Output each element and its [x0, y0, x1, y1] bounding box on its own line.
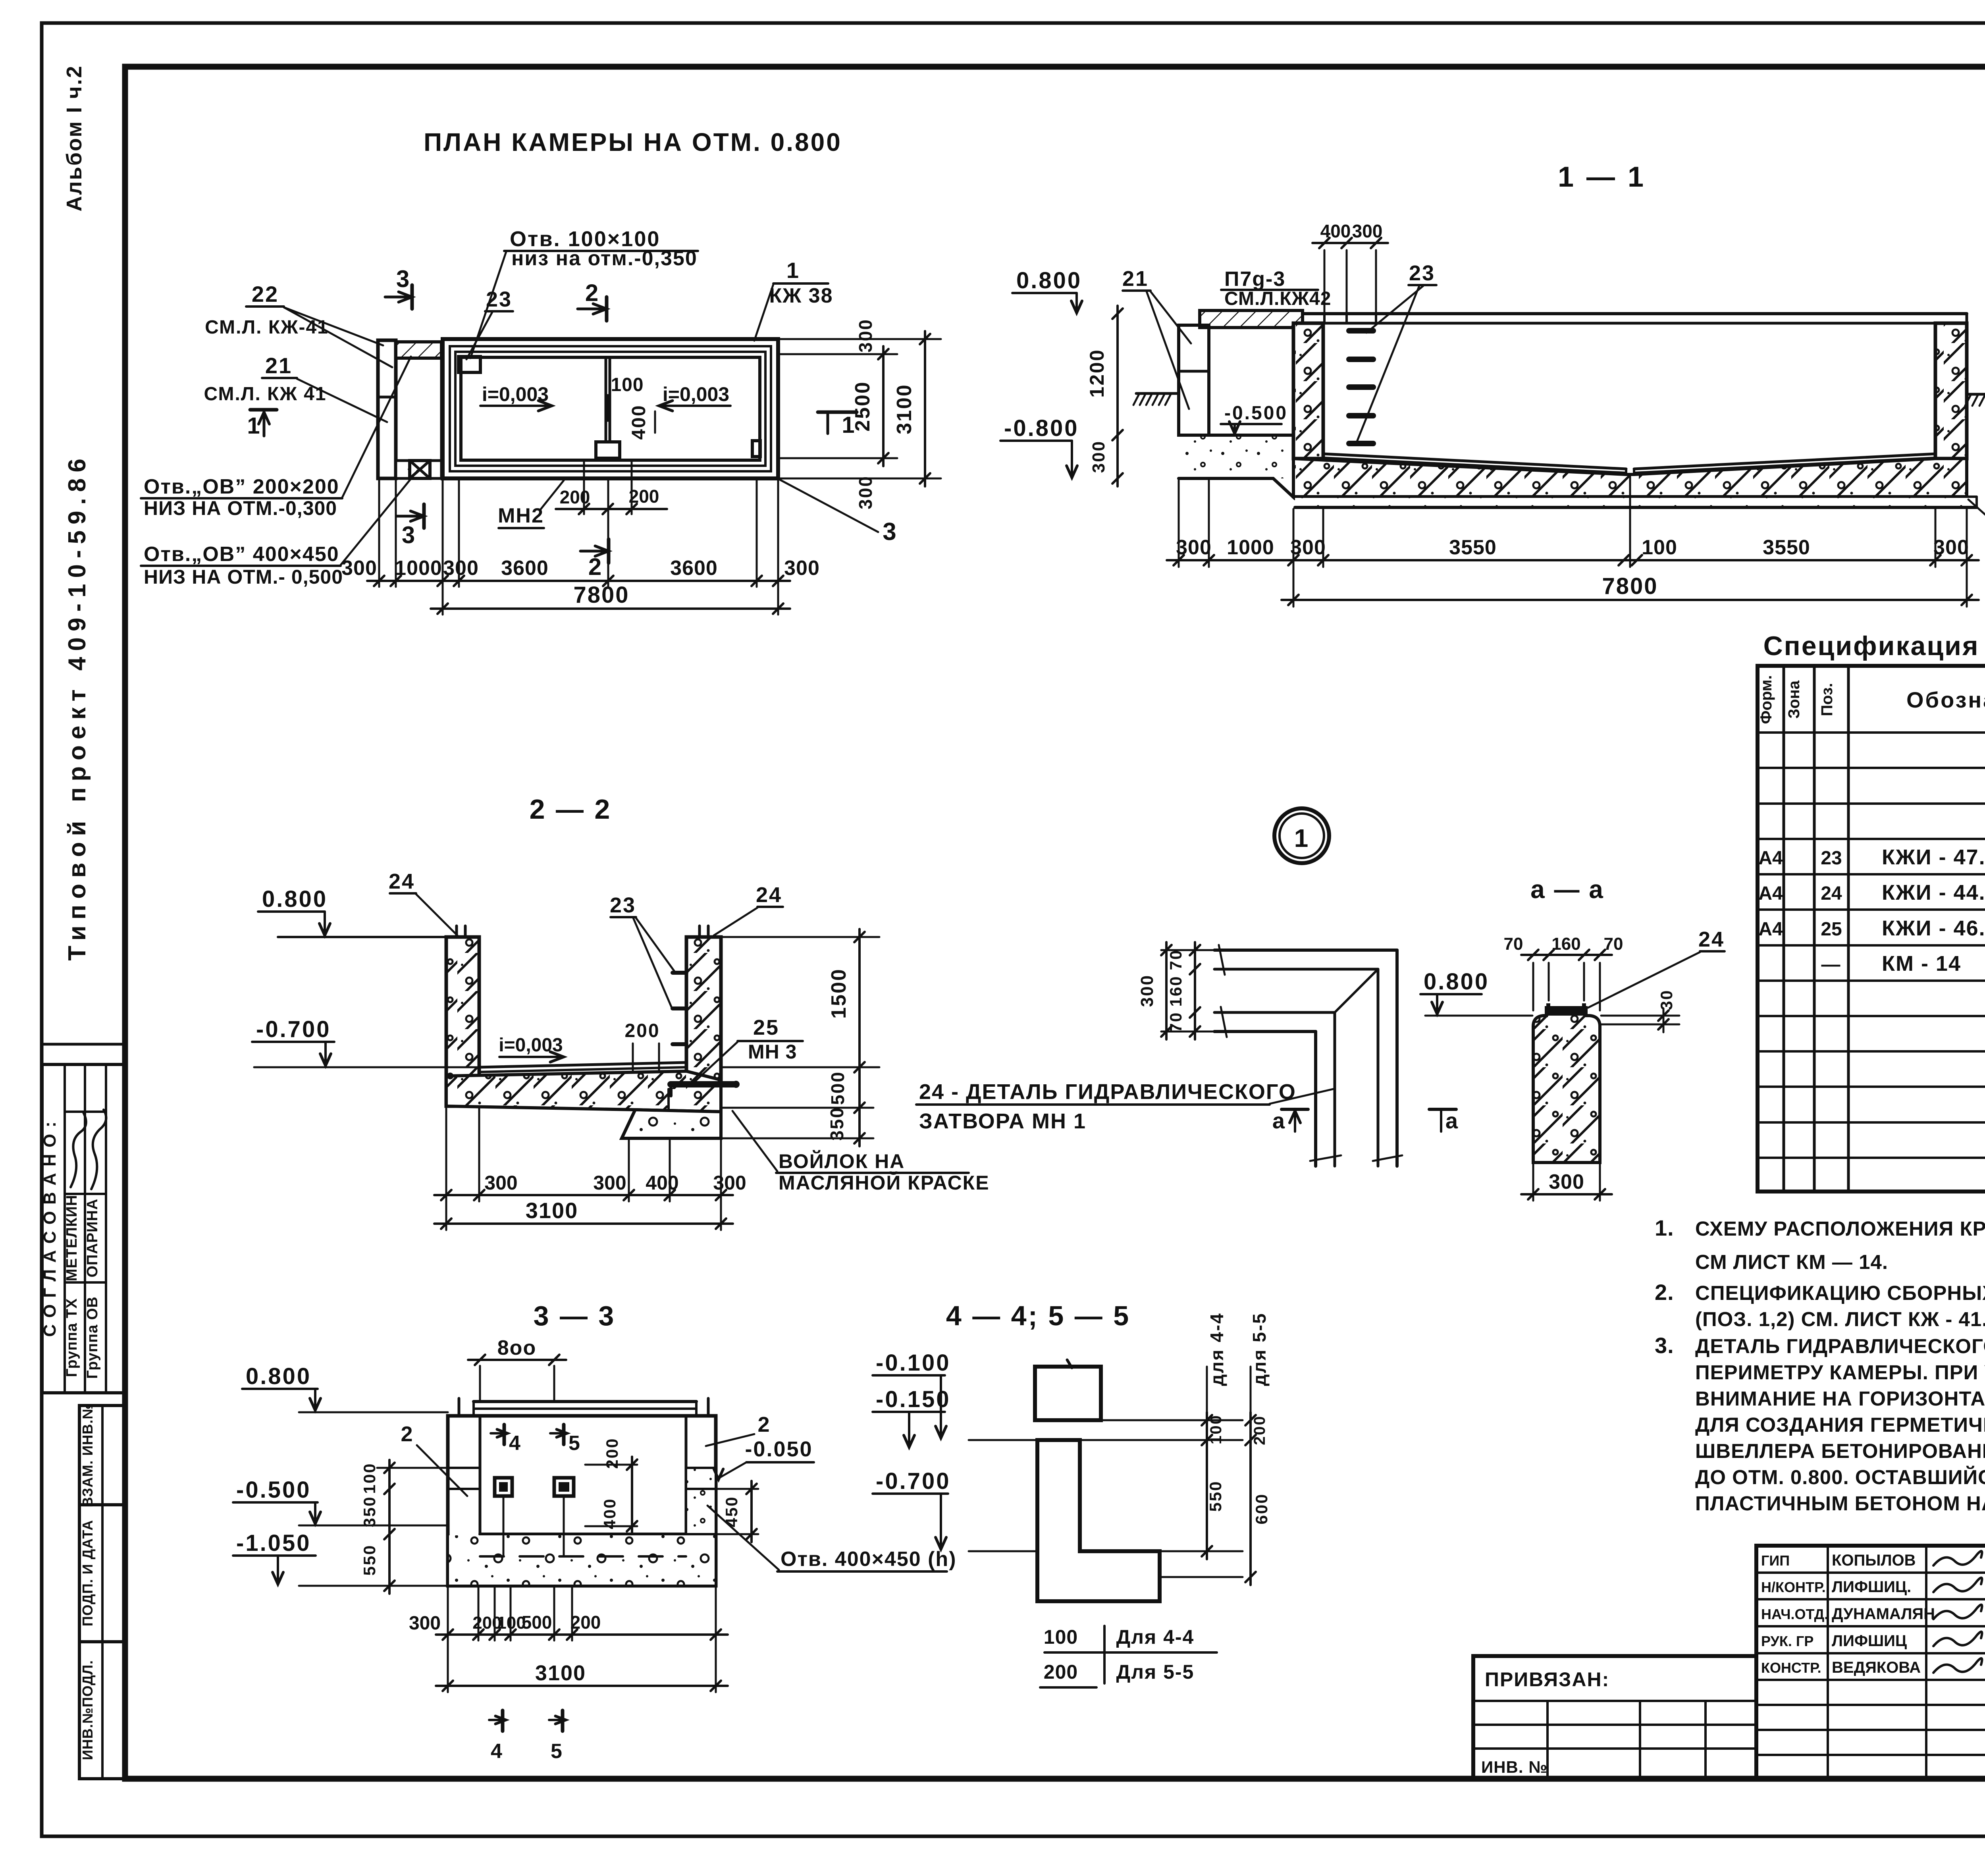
- svg-text:-0.800: -0.800: [1004, 415, 1079, 441]
- svg-text:3600: 3600: [670, 557, 718, 580]
- svg-text:Отв.„ОВ” 400×450: Отв.„ОВ” 400×450: [144, 543, 339, 566]
- svg-text:1.: 1.: [1655, 1215, 1674, 1240]
- svg-text:1 — 1: 1 — 1: [1558, 161, 1646, 193]
- svg-text:-0.500: -0.500: [1224, 403, 1288, 424]
- svg-text:КЖ 38: КЖ 38: [769, 284, 833, 307]
- svg-text:a — a: a — a: [1530, 875, 1604, 904]
- svg-text:Поз.: Поз.: [1818, 683, 1836, 716]
- svg-text:24: 24: [1698, 927, 1725, 951]
- svg-text:24 - ДЕТАЛЬ ГИДРАВЛИЧЕСКОГО: 24 - ДЕТАЛЬ ГИДРАВЛИЧЕСКОГО: [919, 1080, 1296, 1104]
- svg-text:21: 21: [265, 353, 292, 378]
- svg-text:3100: 3100: [526, 1198, 578, 1223]
- svg-text:-1.050: -1.050: [236, 1530, 311, 1556]
- svg-text:550: 550: [1206, 1480, 1225, 1512]
- svg-text:СПЕЦИФИКАЦИЮ СБОРНЫХ БЕТОННЫ: СПЕЦИФИКАЦИЮ СБОРНЫХ БЕТОННЫХ И ЖЕЛЕЗОБЕ…: [1695, 1282, 1985, 1304]
- svg-text:-0.500: -0.500: [236, 1477, 311, 1503]
- svg-text:ДЛЯ СОЗДАНИЯ ГЕРМЕТИЧНОСТИ: ДЛЯ СОЗДАНИЯ ГЕРМЕТИЧНОСТИ МЕЖДУ БЕТОНОМ…: [1695, 1413, 1985, 1436]
- svg-text:МН 3: МН 3: [748, 1041, 797, 1063]
- svg-text:200: 200: [603, 1437, 621, 1469]
- svg-text:ЛИФШИЦ: ЛИФШИЦ: [1832, 1632, 1907, 1650]
- svg-text:4: 4: [491, 1740, 503, 1763]
- svg-text:70: 70: [1504, 934, 1523, 954]
- svg-text:2: 2: [757, 1413, 771, 1436]
- svg-text:ПЛАН КАМЕРЫ НА ОТМ. 0.800: ПЛАН КАМЕРЫ НА ОТМ. 0.800: [424, 128, 842, 156]
- svg-text:3550: 3550: [1449, 536, 1497, 559]
- svg-text:-0.100: -0.100: [876, 1350, 950, 1376]
- svg-text:70: 70: [1604, 934, 1623, 954]
- svg-text:1: 1: [786, 258, 800, 283]
- svg-text:2 — 2: 2 — 2: [530, 794, 612, 825]
- svg-text:350: 350: [360, 1496, 379, 1527]
- svg-text:500: 500: [522, 1612, 552, 1633]
- svg-text:ШВЕЛЛЕРА БЕТОНИРОВАНИЕ СТЕН: ШВЕЛЛЕРА БЕТОНИРОВАНИЕ СТЕН КАМЕРЫ НЕ ДО…: [1695, 1440, 1985, 1462]
- svg-text:Для 4-4: Для 4-4: [1116, 1626, 1195, 1648]
- svg-text:100: 100: [1207, 1414, 1225, 1444]
- svg-text:-0.150: -0.150: [876, 1386, 950, 1412]
- svg-text:-0.050: -0.050: [745, 1437, 813, 1461]
- svg-text:СМ.Л.КЖ42: СМ.Л.КЖ42: [1224, 288, 1331, 309]
- svg-text:СМ.Л. КЖ-41: СМ.Л. КЖ-41: [205, 317, 329, 338]
- svg-text:НИЗ НА ОТМ.-0,300: НИЗ НА ОТМ.-0,300: [144, 497, 337, 519]
- svg-text:1200: 1200: [1086, 349, 1108, 397]
- svg-text:СМ ЛИСТ КМ — 14.: СМ ЛИСТ КМ — 14.: [1695, 1251, 1888, 1273]
- svg-text:23: 23: [1821, 848, 1842, 869]
- svg-text:3100: 3100: [893, 384, 916, 434]
- svg-text:7800: 7800: [1602, 573, 1658, 599]
- svg-text:П7g-3: П7g-3: [1224, 268, 1285, 291]
- svg-text:0.800: 0.800: [1424, 969, 1489, 995]
- svg-text:-0.700: -0.700: [256, 1016, 331, 1042]
- svg-text:300: 300: [1290, 536, 1326, 559]
- svg-text:200: 200: [629, 486, 659, 507]
- svg-text:300: 300: [1352, 221, 1383, 241]
- svg-text:23: 23: [610, 893, 636, 917]
- svg-text:ВЕДЯКОВА: ВЕДЯКОВА: [1832, 1659, 1921, 1676]
- svg-text:24: 24: [1821, 883, 1842, 904]
- svg-text:КЖИ - 47. 00. О: КЖИ - 47. 00. О: [1882, 845, 1985, 869]
- svg-text:24: 24: [389, 870, 415, 893]
- svg-text:300: 300: [341, 557, 377, 580]
- svg-text:3: 3: [883, 518, 897, 546]
- svg-text:НИЗ НА ОТМ.- 0,500: НИЗ НА ОТМ.- 0,500: [144, 566, 343, 588]
- svg-text:3: 3: [402, 522, 416, 548]
- svg-text:2: 2: [588, 553, 603, 580]
- svg-text:(ПОЗ. 1,2) СМ. ЛИСТ КЖ - 41: (ПОЗ. 1,2) СМ. ЛИСТ КЖ - 41.: [1695, 1308, 1985, 1330]
- svg-text:550: 550: [360, 1544, 379, 1575]
- svg-text:1000: 1000: [1227, 536, 1274, 559]
- svg-text:400: 400: [628, 404, 649, 440]
- svg-text:Отв. 400×450 (h): Отв. 400×450 (h): [781, 1548, 957, 1571]
- svg-text:1: 1: [1294, 824, 1310, 852]
- svg-text:2.: 2.: [1655, 1280, 1674, 1305]
- svg-text:для 4-4: для 4-4: [1206, 1312, 1227, 1386]
- svg-text:С О Г Л А С О В А Н О :: С О Г Л А С О В А Н О :: [40, 1121, 60, 1337]
- svg-text:Отв.„ОВ” 200×200: Отв.„ОВ” 200×200: [144, 475, 339, 498]
- svg-text:4 — 4; 5 — 5: 4 — 4; 5 — 5: [946, 1300, 1130, 1331]
- svg-text:22: 22: [252, 281, 279, 307]
- svg-text:23: 23: [1409, 261, 1435, 285]
- svg-text:ИНВ. №: ИНВ. №: [1481, 1758, 1548, 1776]
- svg-text:1: 1: [842, 412, 856, 438]
- svg-text:300: 300: [1176, 536, 1212, 559]
- svg-text:1500: 1500: [827, 968, 850, 1019]
- svg-text:4: 4: [509, 1432, 522, 1455]
- svg-text:3100: 3100: [535, 1661, 586, 1685]
- svg-text:Спецификация элементов монол: Спецификация элементов монолитной констр…: [1763, 631, 1985, 661]
- svg-text:0.800: 0.800: [262, 886, 328, 912]
- svg-text:25: 25: [1821, 919, 1842, 940]
- svg-text:100: 100: [1044, 1626, 1078, 1648]
- svg-text:-0.700: -0.700: [876, 1468, 950, 1494]
- svg-text:5: 5: [551, 1740, 563, 1763]
- svg-text:3 — 3: 3 — 3: [534, 1300, 616, 1331]
- svg-text:300: 300: [855, 475, 876, 509]
- svg-text:ПРИВЯЗАН:: ПРИВЯЗАН:: [1485, 1668, 1609, 1691]
- svg-text:ОПАРИНА: ОПАРИНА: [84, 1199, 101, 1278]
- svg-text:21: 21: [1122, 267, 1149, 291]
- svg-text:ЛИФШИЦ.: ЛИФШИЦ.: [1832, 1578, 1911, 1596]
- svg-text:200: 200: [560, 487, 590, 507]
- svg-text:ВНИМАНИЕ НА ГОРИЗОНТАЛЬНОСТЬ: ВНИМАНИЕ НА ГОРИЗОНТАЛЬНОСТЬ И ГЕРМЕТИЧН…: [1695, 1387, 1985, 1410]
- svg-text:СМ.Л. КЖ 41: СМ.Л. КЖ 41: [204, 384, 326, 405]
- svg-text:300: 300: [443, 557, 479, 580]
- svg-text:200: 200: [1044, 1661, 1078, 1683]
- svg-text:Н/КОНТР.: Н/КОНТР.: [1761, 1579, 1826, 1595]
- svg-text:Группа ОВ: Группа ОВ: [84, 1296, 101, 1379]
- svg-text:100: 100: [360, 1462, 379, 1494]
- svg-text:Обозначение: Обозначение: [1906, 687, 1985, 712]
- svg-text:0.800: 0.800: [1016, 268, 1082, 293]
- svg-text:МН2: МН2: [498, 504, 544, 527]
- svg-text:2: 2: [585, 280, 599, 306]
- svg-text:500: 500: [827, 1071, 848, 1105]
- svg-text:Для 5-5: Для 5-5: [1116, 1661, 1195, 1683]
- svg-text:160: 160: [1166, 975, 1185, 1006]
- svg-text:ДЕТАЛЬ ГИДРАВЛИЧЕСКОГО ЗАТВО: ДЕТАЛЬ ГИДРАВЛИЧЕСКОГО ЗАТВОРА ( ПОЗ. 4)…: [1695, 1335, 1985, 1357]
- svg-text:600: 600: [1252, 1493, 1271, 1524]
- svg-text:300: 300: [409, 1613, 441, 1634]
- svg-text:А4: А4: [1758, 848, 1783, 869]
- svg-text:для 5-5: для 5-5: [1249, 1312, 1270, 1386]
- svg-text:3600: 3600: [501, 557, 549, 580]
- svg-text:25: 25: [753, 1016, 779, 1039]
- svg-text:—: —: [1821, 954, 1842, 975]
- svg-text:a: a: [1272, 1108, 1286, 1133]
- svg-text:300: 300: [593, 1172, 626, 1194]
- svg-text:300: 300: [1089, 440, 1108, 473]
- svg-text:350: 350: [827, 1107, 847, 1141]
- svg-text:2: 2: [401, 1422, 414, 1446]
- svg-text:КОНСТР.: КОНСТР.: [1761, 1660, 1821, 1676]
- svg-text:ПЛАСТИЧНЫМ БЕТОНОМ НА МЕ: ПЛАСТИЧНЫМ БЕТОНОМ НА МЕЛКОМ ГРАВИИ.: [1695, 1492, 1985, 1515]
- svg-text:ГИП: ГИП: [1761, 1552, 1790, 1569]
- svg-text:ВЗАМ. ИНВ.№: ВЗАМ. ИНВ.№: [79, 1403, 96, 1507]
- svg-text:24: 24: [756, 883, 782, 907]
- svg-text:300: 300: [1137, 974, 1157, 1007]
- svg-text:Группа ТХ: Группа ТХ: [64, 1298, 80, 1377]
- svg-text:ПОДП. И ДАТА: ПОДП. И ДАТА: [79, 1520, 96, 1626]
- svg-text:0.800: 0.800: [246, 1363, 311, 1389]
- svg-text:70: 70: [1166, 949, 1185, 970]
- svg-text:1: 1: [247, 413, 261, 439]
- svg-text:300: 300: [713, 1172, 746, 1194]
- svg-text:МЕТЕЛКИН: МЕТЕЛКИН: [64, 1195, 80, 1281]
- svg-text:Альбом I ч.2: Альбом I ч.2: [62, 65, 86, 211]
- svg-text:3: 3: [396, 266, 410, 292]
- svg-text:КЖИ - 46. 00. О: КЖИ - 46. 00. О: [1882, 916, 1985, 940]
- svg-text:СХЕМУ РАСПОЛОЖЕНИЯ КРЫШКИ, К: СХЕМУ РАСПОЛОЖЕНИЯ КРЫШКИ, КОНСТРУКЦИЮ И…: [1695, 1217, 1985, 1240]
- svg-text:3.: 3.: [1655, 1333, 1674, 1358]
- svg-text:23: 23: [486, 287, 512, 311]
- svg-text:8оо: 8оо: [497, 1336, 536, 1359]
- svg-text:1000: 1000: [395, 557, 442, 580]
- svg-text:МАСЛЯНОЙ КРАСКЕ: МАСЛЯНОЙ КРАСКЕ: [779, 1171, 990, 1194]
- svg-text:НАЧ.ОТД.: НАЧ.ОТД.: [1761, 1606, 1828, 1622]
- svg-text:a: a: [1445, 1108, 1459, 1133]
- svg-text:Типовой проект 409-10-59.86: Типовой проект 409-10-59.86: [64, 453, 91, 961]
- svg-text:ИНВ.№ПОДЛ.: ИНВ.№ПОДЛ.: [79, 1660, 96, 1760]
- svg-text:5: 5: [569, 1432, 581, 1455]
- svg-text:300: 300: [855, 318, 876, 353]
- svg-text:160: 160: [1551, 934, 1580, 954]
- svg-text:ДУНАМАЛЯН: ДУНАМАЛЯН: [1832, 1605, 1935, 1623]
- svg-text:А4: А4: [1758, 883, 1783, 904]
- svg-text:ЗАТВОРА МН 1: ЗАТВОРА МН 1: [919, 1109, 1086, 1133]
- svg-text:300: 300: [1549, 1170, 1584, 1193]
- svg-text:100: 100: [611, 374, 644, 395]
- svg-text:РУК. ГР: РУК. ГР: [1761, 1633, 1813, 1649]
- svg-text:300: 300: [784, 557, 820, 580]
- svg-text:400: 400: [646, 1172, 678, 1194]
- svg-text:КМ - 14: КМ - 14: [1882, 952, 1961, 976]
- svg-text:ВОЙЛОК НА: ВОЙЛОК НА: [779, 1150, 905, 1172]
- svg-text:30: 30: [1657, 989, 1676, 1010]
- svg-text:Форм.: Форм.: [1758, 675, 1775, 724]
- svg-text:200: 200: [570, 1612, 601, 1633]
- svg-text:100: 100: [1642, 536, 1677, 559]
- svg-text:400: 400: [1320, 221, 1351, 241]
- svg-text:А4: А4: [1758, 919, 1783, 940]
- svg-text:КОПЫЛОВ: КОПЫЛОВ: [1832, 1552, 1916, 1569]
- svg-text:ПЕРИМЕТРУ КАМЕРЫ. ПРИ УСТА: ПЕРИМЕТРУ КАМЕРЫ. ПРИ УСТАНОВКЕ С16 СЛЕД…: [1695, 1361, 1985, 1384]
- svg-text:300: 300: [484, 1172, 517, 1194]
- svg-text:ДО ОТМ. 0.800. ОСТАВШИЙСЯ: ДО ОТМ. 0.800. ОСТАВШИЙСЯ ЗАЗОР ТЩАТЕЛЬН…: [1695, 1465, 1985, 1488]
- svg-text:300: 300: [1933, 536, 1969, 559]
- svg-text:200: 200: [624, 1020, 660, 1041]
- svg-text:200: 200: [1251, 1415, 1268, 1445]
- svg-text:Зона: Зона: [1785, 680, 1803, 719]
- svg-text:7800: 7800: [573, 582, 629, 608]
- svg-text:КЖИ - 44. 00. О: КЖИ - 44. 00. О: [1882, 881, 1985, 904]
- svg-text:3550: 3550: [1763, 536, 1810, 559]
- svg-text:400: 400: [600, 1498, 619, 1529]
